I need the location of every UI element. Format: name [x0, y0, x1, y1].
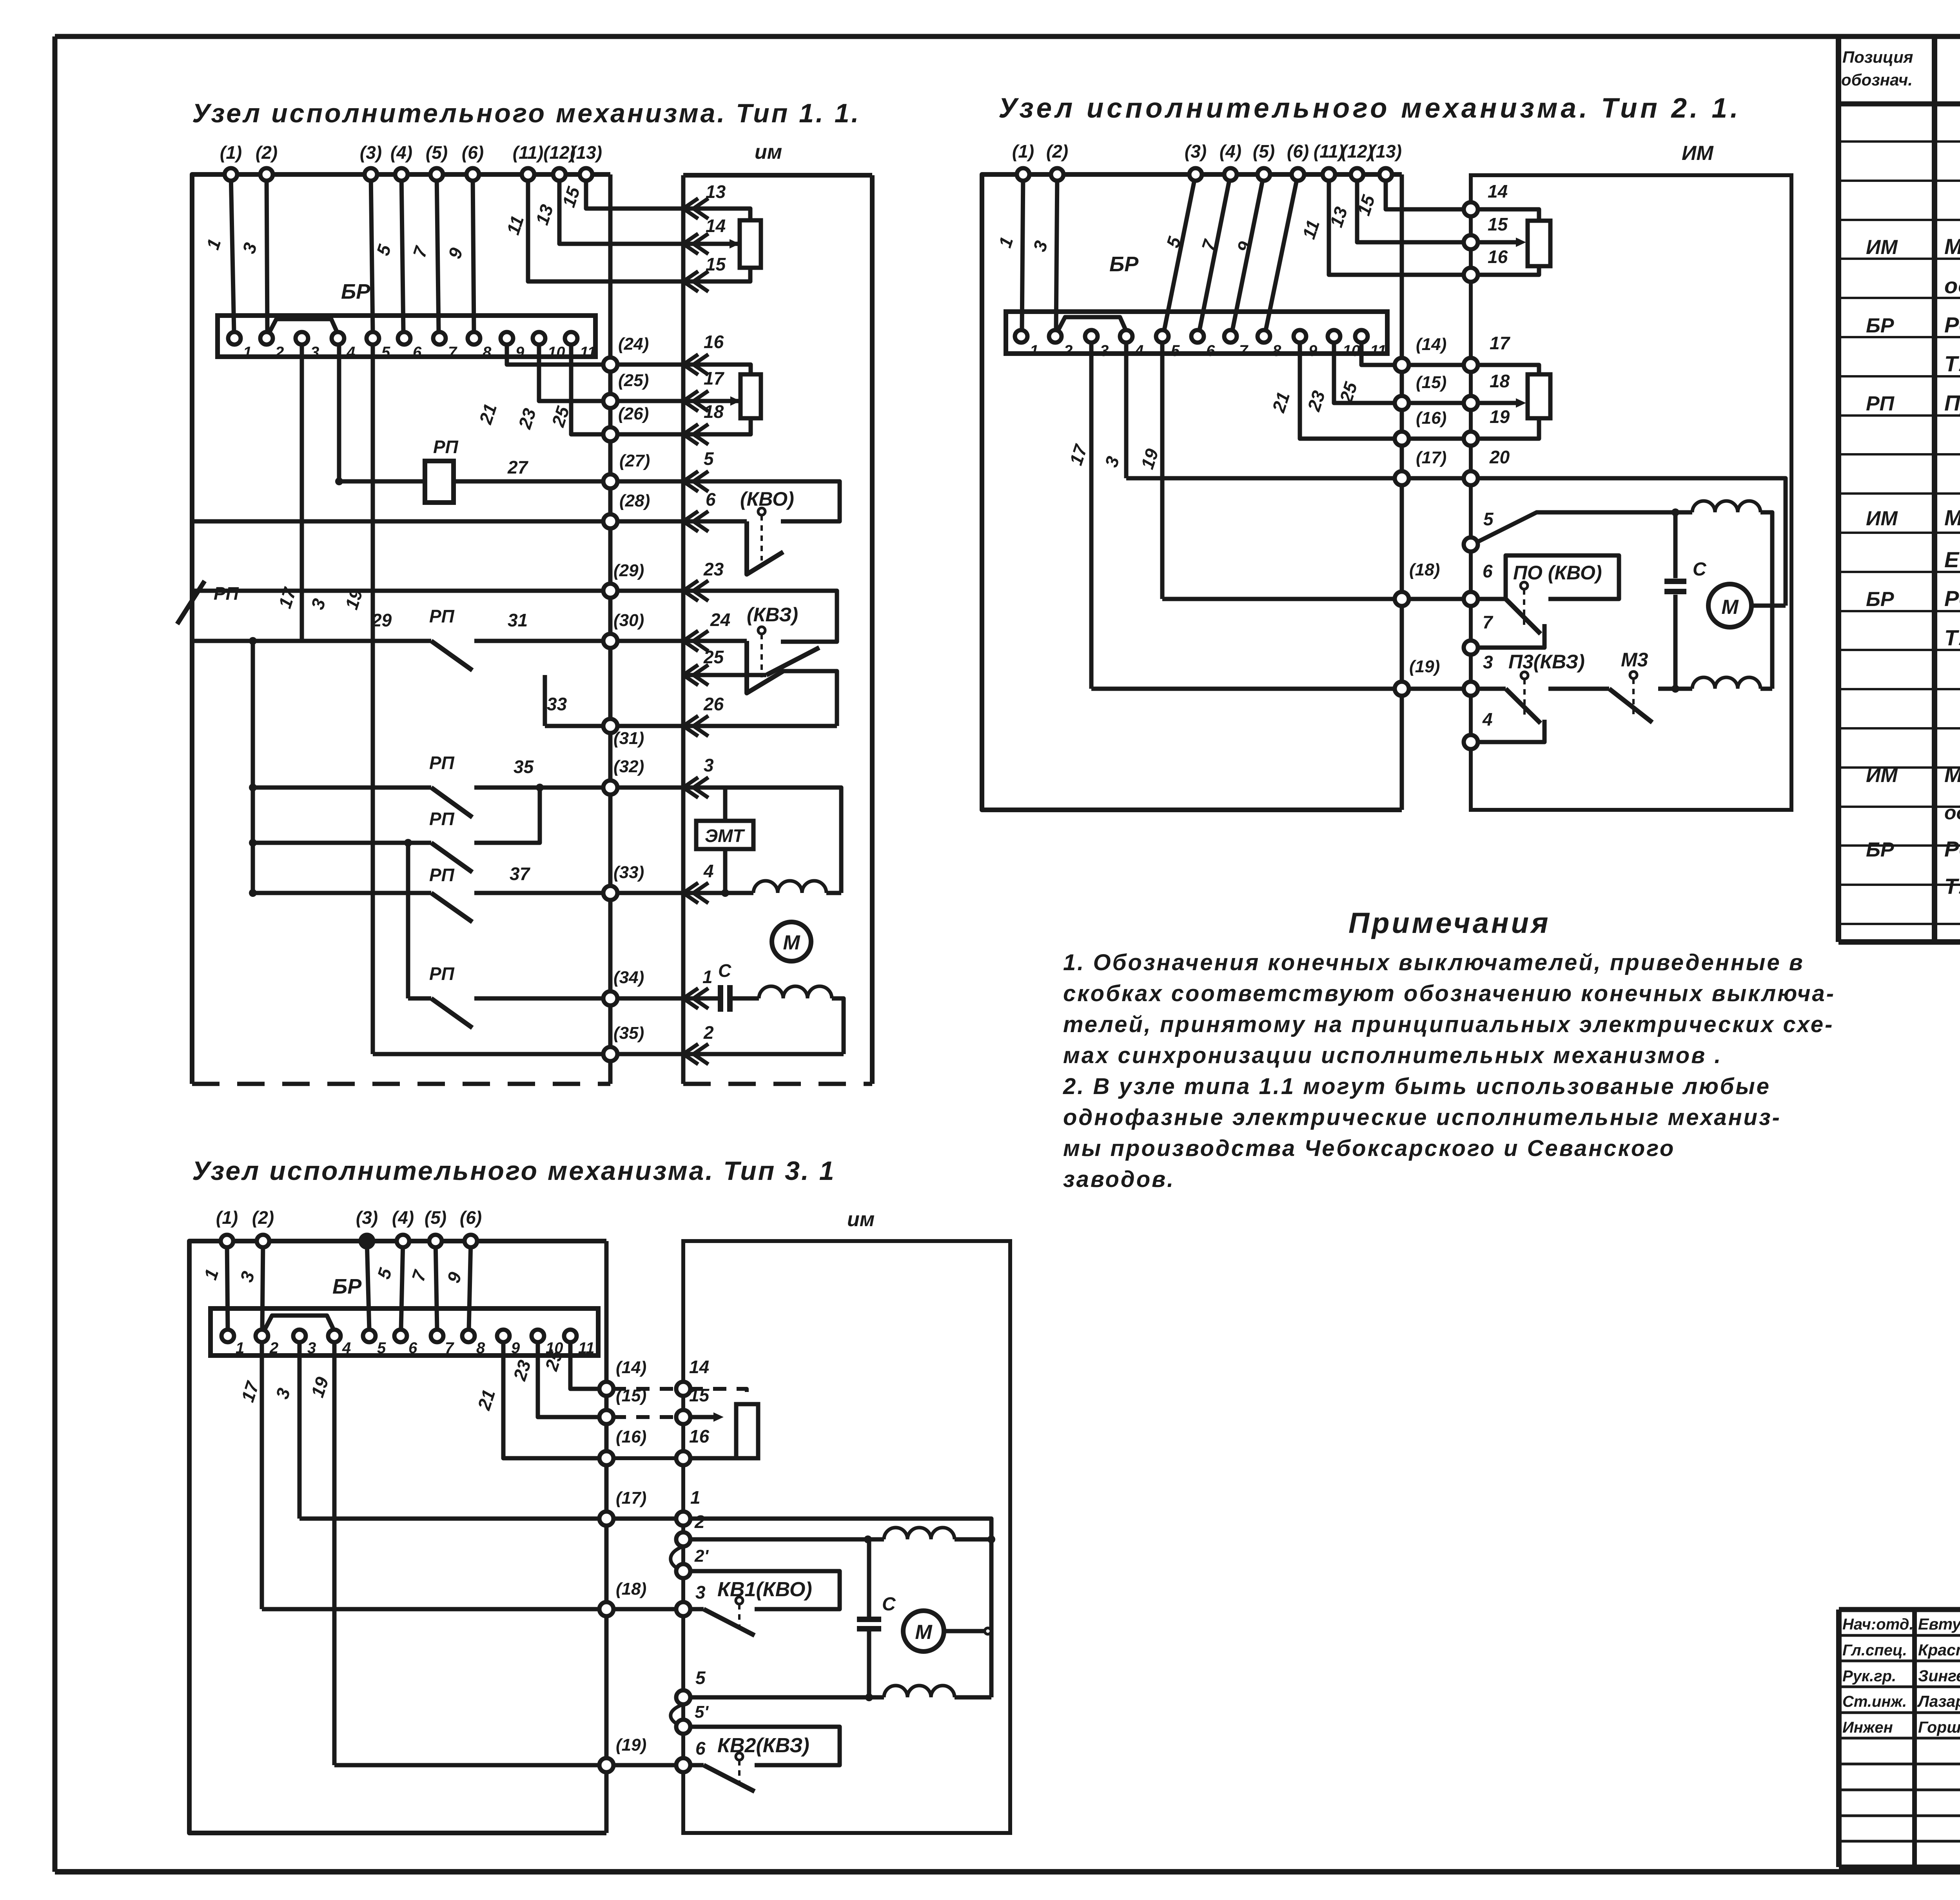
svg-text:БР: БР — [1866, 588, 1894, 611]
svg-text:Механизм исполнительный электр: Механизм исполнительный электрический — [1944, 762, 1960, 787]
svg-text:6: 6 — [695, 1738, 706, 1758]
svg-text:мах синхронизации исполнител: мах синхронизации исполнительных механиз… — [1063, 1043, 1722, 1068]
svg-text:2: 2 — [703, 1022, 714, 1043]
svg-text:(6): (6) — [1287, 141, 1309, 162]
svg-text:Ст.инж.: Ст.инж. — [1842, 1693, 1907, 1710]
svg-text:(5): (5) — [425, 1207, 446, 1228]
svg-text:М: М — [783, 931, 800, 954]
svg-text:(11): (11) — [1314, 141, 1344, 162]
svg-text:РП: РП — [1866, 392, 1895, 415]
svg-text:Узел исполнительного механ: Узел исполнительного механизма. Тип 1. 1… — [192, 98, 860, 128]
svg-text:однофазные электрические и: однофазные электрические исполнительныг … — [1063, 1105, 1781, 1130]
svg-text:7: 7 — [445, 1339, 454, 1357]
svg-text:33: 33 — [547, 694, 567, 714]
svg-text:(14): (14) — [1416, 335, 1446, 354]
svg-text:(27): (27) — [619, 451, 650, 470]
svg-text:Нач:отд.: Нач:отд. — [1842, 1616, 1914, 1633]
svg-text:С: С — [1693, 559, 1707, 580]
svg-text:Реле балансное электронное БРЭ: Реле балансное электронное БРЭ-1, — [1944, 837, 1960, 861]
svg-text:однооборотный МЭО-4/63-0,63, Г: однооборотный МЭО-4/63-0,63, ГОСТ — [1944, 273, 1960, 298]
svg-text:6: 6 — [706, 489, 716, 510]
svg-text:БР: БР — [1866, 314, 1894, 337]
svg-text:1: 1 — [702, 967, 713, 987]
svg-text:(24): (24) — [618, 334, 649, 354]
svg-text:(КВО): (КВО) — [740, 488, 794, 510]
svg-text:2: 2 — [1063, 342, 1073, 359]
svg-text:24: 24 — [710, 610, 730, 630]
svg-text:Зингерман: Зингерман — [1918, 1667, 1960, 1685]
svg-text:(34): (34) — [613, 968, 644, 987]
svg-text:ТУ 25-0.5 ( 1Е4. 544. 000 ) -: ТУ 25-0.5 ( 1Е4. 544. 000 ) - 78 — [1944, 874, 1960, 898]
svg-text:Лазаренко: Лазаренко — [1917, 1692, 1960, 1710]
svg-text:ИМ: ИМ — [1682, 142, 1714, 165]
svg-text:4: 4 — [1482, 709, 1493, 730]
svg-text:БР: БР — [1109, 252, 1139, 276]
svg-text:15: 15 — [706, 254, 726, 274]
svg-text:(31): (31) — [613, 729, 644, 748]
svg-text:(32): (32) — [613, 757, 644, 776]
svg-text:БР: БР — [332, 1275, 362, 1298]
svg-text:(1): (1) — [216, 1207, 238, 1228]
svg-text:3: 3 — [310, 344, 319, 361]
svg-text:2': 2' — [694, 1546, 709, 1566]
svg-text:(17): (17) — [1416, 448, 1446, 467]
svg-text:15: 15 — [1488, 214, 1508, 234]
svg-text:КВ1(КВО): КВ1(КВО) — [717, 1578, 812, 1601]
svg-text:М: М — [915, 1621, 933, 1644]
svg-text:1: 1 — [243, 344, 252, 361]
svg-text:13: 13 — [706, 181, 726, 202]
svg-text:5: 5 — [704, 448, 714, 469]
svg-text:4: 4 — [346, 344, 355, 361]
svg-text:Механизм исполнительный электр: Механизм исполнительный электрический — [1944, 234, 1960, 259]
svg-text:17: 17 — [704, 368, 725, 388]
svg-text:1. Обозначения конечных выкл: 1. Обозначения конечных выключателей, пр… — [1063, 950, 1804, 975]
svg-text:6: 6 — [413, 344, 422, 361]
svg-text:20: 20 — [1489, 447, 1510, 467]
svg-text:(16): (16) — [1416, 408, 1446, 428]
svg-text:3: 3 — [307, 1339, 316, 1357]
svg-text:4: 4 — [703, 861, 714, 881]
svg-text:(4): (4) — [392, 1207, 414, 1228]
svg-text:ИМ: ИМ — [1866, 764, 1898, 787]
svg-text:(4): (4) — [390, 142, 412, 163]
svg-text:6: 6 — [1483, 561, 1493, 581]
svg-text:С: С — [718, 960, 731, 981]
svg-text:однооборотный МЭО-0,63/□-0,25;: однооборотный МЭО-0,63/□-0,25; ГОСТ 7192… — [1944, 802, 1960, 824]
svg-text:29: 29 — [371, 610, 392, 630]
svg-text:5': 5' — [695, 1702, 709, 1722]
svg-text:ИМ: ИМ — [1866, 236, 1898, 259]
svg-text:5: 5 — [1171, 342, 1180, 359]
svg-text:(30): (30) — [613, 611, 644, 630]
svg-text:14: 14 — [689, 1357, 709, 1377]
svg-text:5: 5 — [695, 1668, 706, 1688]
svg-text:Механизм исполнительный электр: Механизм исполнительный электрический — [1944, 505, 1960, 530]
svg-text:6: 6 — [408, 1339, 417, 1357]
svg-text:(КВЗ): (КВЗ) — [747, 604, 798, 626]
svg-text:11: 11 — [578, 1339, 595, 1357]
svg-text:(5): (5) — [1253, 141, 1275, 162]
svg-text:(25): (25) — [618, 371, 649, 390]
svg-text:(6): (6) — [462, 142, 484, 163]
svg-text:(15): (15) — [616, 1386, 646, 1405]
svg-text:9: 9 — [511, 1339, 520, 1357]
svg-text:мы производства Чебоксарск: мы производства Чебоксарского и Севанско… — [1063, 1136, 1675, 1161]
svg-text:3: 3 — [1100, 342, 1109, 359]
svg-text:ИМ: ИМ — [1866, 507, 1898, 530]
svg-text:Крастошевский: Крастошевский — [1918, 1641, 1960, 1659]
svg-text:(12): (12) — [1341, 141, 1373, 162]
svg-text:35: 35 — [514, 757, 534, 777]
svg-text:2: 2 — [275, 344, 284, 361]
svg-text:Узел исполнительного механ: Узел исполнительного механизма. Тип 3. 1 — [192, 1156, 836, 1186]
svg-text:17: 17 — [1490, 333, 1511, 353]
svg-text:19: 19 — [1490, 406, 1510, 427]
svg-text:1: 1 — [690, 1487, 701, 1508]
svg-text:Инжен: Инжен — [1842, 1719, 1893, 1736]
svg-text:10: 10 — [548, 344, 565, 361]
svg-text:11: 11 — [580, 344, 596, 361]
svg-text:(18): (18) — [1409, 560, 1440, 579]
svg-text:1: 1 — [236, 1339, 244, 1357]
svg-text:БР: БР — [1866, 838, 1894, 861]
svg-text:6: 6 — [1206, 342, 1215, 359]
svg-text:(33): (33) — [613, 863, 644, 882]
svg-text:(16): (16) — [616, 1427, 646, 1446]
svg-text:им: им — [755, 141, 782, 163]
svg-text:телей, принятому на принципи: телей, принятому на принципиальных элект… — [1063, 1012, 1834, 1037]
svg-text:Узел исполнительного механиз: Узел исполнительного механизма. Тип 2. 1… — [998, 93, 1741, 124]
svg-text:М: М — [1721, 596, 1739, 619]
svg-text:Реле балансное электронное БРЭ: Реле балансное электронное БРЭ-1, — [1944, 312, 1960, 337]
svg-text:РП: РП — [429, 753, 455, 773]
svg-text:С: С — [882, 1594, 896, 1615]
svg-text:ПО (КВО): ПО (КВО) — [1513, 562, 1602, 584]
svg-text:1: 1 — [1030, 342, 1038, 359]
svg-text:ЭМТ: ЭМТ — [705, 826, 745, 846]
svg-text:(11): (11) — [513, 142, 543, 163]
svg-text:Рук.гр.: Рук.гр. — [1842, 1668, 1896, 1685]
svg-text:ТУ 25- 05 (1Е4. 544. 000 )-78: ТУ 25- 05 (1Е4. 544. 000 )-78 — [1944, 351, 1960, 376]
svg-text:25: 25 — [703, 647, 724, 667]
svg-text:РП: РП — [429, 809, 455, 829]
svg-text:16: 16 — [1488, 247, 1508, 267]
svg-text:(28): (28) — [619, 491, 650, 510]
svg-text:Пускатель магнитный ПМЕ-071: Пускатель магнитный ПМЕ-071 — [1944, 390, 1960, 415]
svg-text:скобках соответствуют обозна: скобках соответствуют обозначению конечн… — [1063, 981, 1835, 1006]
svg-text:(18): (18) — [616, 1579, 646, 1599]
svg-text:РП: РП — [214, 583, 239, 604]
svg-text:БР: БР — [341, 280, 370, 303]
svg-text:(3): (3) — [1185, 141, 1207, 162]
svg-text:(5): (5) — [426, 142, 448, 163]
svg-text:(13): (13) — [1370, 141, 1402, 162]
svg-text:4: 4 — [1134, 342, 1143, 359]
svg-text:31: 31 — [508, 610, 528, 630]
svg-text:2: 2 — [269, 1339, 278, 1357]
svg-text:заводов.: заводов. — [1063, 1167, 1175, 1192]
svg-text:9: 9 — [515, 344, 524, 361]
svg-text:7: 7 — [1483, 612, 1494, 632]
svg-text:(19): (19) — [1409, 657, 1440, 676]
svg-text:(2): (2) — [256, 142, 278, 163]
svg-text:обознач.: обознач. — [1841, 71, 1913, 89]
svg-text:(19): (19) — [616, 1735, 646, 1755]
svg-text:РП: РП — [429, 606, 455, 626]
svg-text:27: 27 — [507, 457, 529, 477]
svg-text:5: 5 — [377, 1339, 386, 1357]
svg-text:(2): (2) — [252, 1207, 274, 1228]
svg-text:М3: М3 — [1621, 649, 1648, 671]
svg-text:2: 2 — [694, 1512, 705, 1532]
svg-text:ТУ 25- 05( 1Е 4. 544. 000 )-78: ТУ 25- 05( 1Е 4. 544. 000 )-78 — [1944, 625, 1960, 650]
svg-text:Позиция: Позиция — [1842, 48, 1913, 66]
svg-text:(14): (14) — [616, 1358, 646, 1377]
svg-text:Реле балансное электронное ВР: Реле балансное электронное ВРЭ-1, — [1944, 586, 1960, 611]
svg-text:9: 9 — [1308, 342, 1318, 359]
svg-text:(35): (35) — [613, 1023, 644, 1043]
svg-text:(29): (29) — [613, 561, 644, 580]
svg-text:(6): (6) — [460, 1207, 482, 1228]
svg-text:КВ2(КВЗ): КВ2(КВЗ) — [717, 1734, 809, 1757]
svg-text:им: им — [847, 1208, 875, 1231]
svg-text:3: 3 — [1483, 652, 1493, 672]
svg-text:(2): (2) — [1046, 141, 1068, 162]
svg-text:(1): (1) — [220, 142, 242, 163]
svg-text:37: 37 — [510, 864, 531, 884]
svg-text:7: 7 — [1239, 342, 1249, 359]
svg-text:8: 8 — [483, 344, 492, 361]
svg-text:8: 8 — [476, 1339, 485, 1357]
svg-text:11: 11 — [1370, 342, 1387, 359]
svg-text:(4): (4) — [1220, 141, 1241, 162]
svg-text:3: 3 — [704, 755, 714, 775]
svg-text:2. В узле типа 1.1 могут б: 2. В узле типа 1.1 могут быть использова… — [1063, 1074, 1771, 1099]
svg-text:РП: РП — [433, 437, 459, 457]
svg-text:7: 7 — [448, 344, 457, 361]
svg-text:14: 14 — [706, 216, 726, 236]
svg-text:Примечания: Примечания — [1348, 907, 1550, 939]
svg-text:Евтушенко: Евтушенко — [1918, 1615, 1960, 1633]
svg-text:23: 23 — [703, 559, 724, 579]
svg-text:18: 18 — [1490, 371, 1510, 391]
svg-text:16: 16 — [704, 332, 724, 352]
svg-text:РП: РП — [429, 865, 455, 885]
svg-text:ЕСПА 02-ПВ: ЕСПА 02-ПВ — [1944, 547, 1960, 572]
svg-text:(1): (1) — [1012, 141, 1034, 162]
svg-text:5: 5 — [1483, 509, 1494, 529]
svg-text:26: 26 — [703, 694, 724, 714]
svg-text:(17): (17) — [616, 1488, 646, 1508]
svg-text:4: 4 — [342, 1339, 351, 1357]
svg-text:Горшенина: Горшенина — [1918, 1718, 1960, 1736]
svg-text:16: 16 — [689, 1426, 710, 1446]
svg-text:(15): (15) — [1416, 373, 1446, 392]
svg-text:Гл.спец.: Гл.спец. — [1842, 1642, 1907, 1659]
svg-text:(3): (3) — [356, 1207, 378, 1228]
svg-text:(3): (3) — [360, 142, 382, 163]
svg-text:14: 14 — [1488, 181, 1508, 201]
svg-text:18: 18 — [704, 401, 724, 422]
svg-text:10: 10 — [1343, 342, 1360, 359]
svg-text:3: 3 — [695, 1582, 706, 1602]
svg-text:8: 8 — [1272, 342, 1281, 359]
svg-text:5: 5 — [381, 344, 390, 361]
svg-text:РП: РП — [429, 964, 455, 984]
svg-text:(13): (13) — [570, 142, 602, 163]
svg-text:П3(КВЗ): П3(КВЗ) — [1508, 651, 1585, 673]
svg-text:(26): (26) — [618, 404, 649, 423]
